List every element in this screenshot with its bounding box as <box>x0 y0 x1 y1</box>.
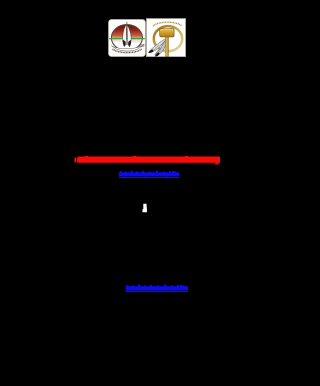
arc caption text <box>112 49 141 53</box>
tassel strands <box>149 38 166 52</box>
gavel head <box>160 29 174 37</box>
blue link line 2 <box>125 284 189 294</box>
green horizon line <box>109 38 145 39</box>
blue link line 1 <box>118 170 180 180</box>
arc caption text (gold) <box>153 22 182 26</box>
gavel handle <box>166 36 169 57</box>
hull swoosh <box>111 44 144 51</box>
dhow sails <box>126 21 127 27</box>
golden ring <box>154 26 182 51</box>
left court logo (dhow emblem) <box>108 19 146 57</box>
circle emblem <box>111 24 142 50</box>
white highlighted glyph <box>141 202 149 214</box>
red title text bar <box>73 154 223 166</box>
small dhow at right <box>138 44 144 46</box>
right court logo (gavel emblem) <box>146 18 186 57</box>
